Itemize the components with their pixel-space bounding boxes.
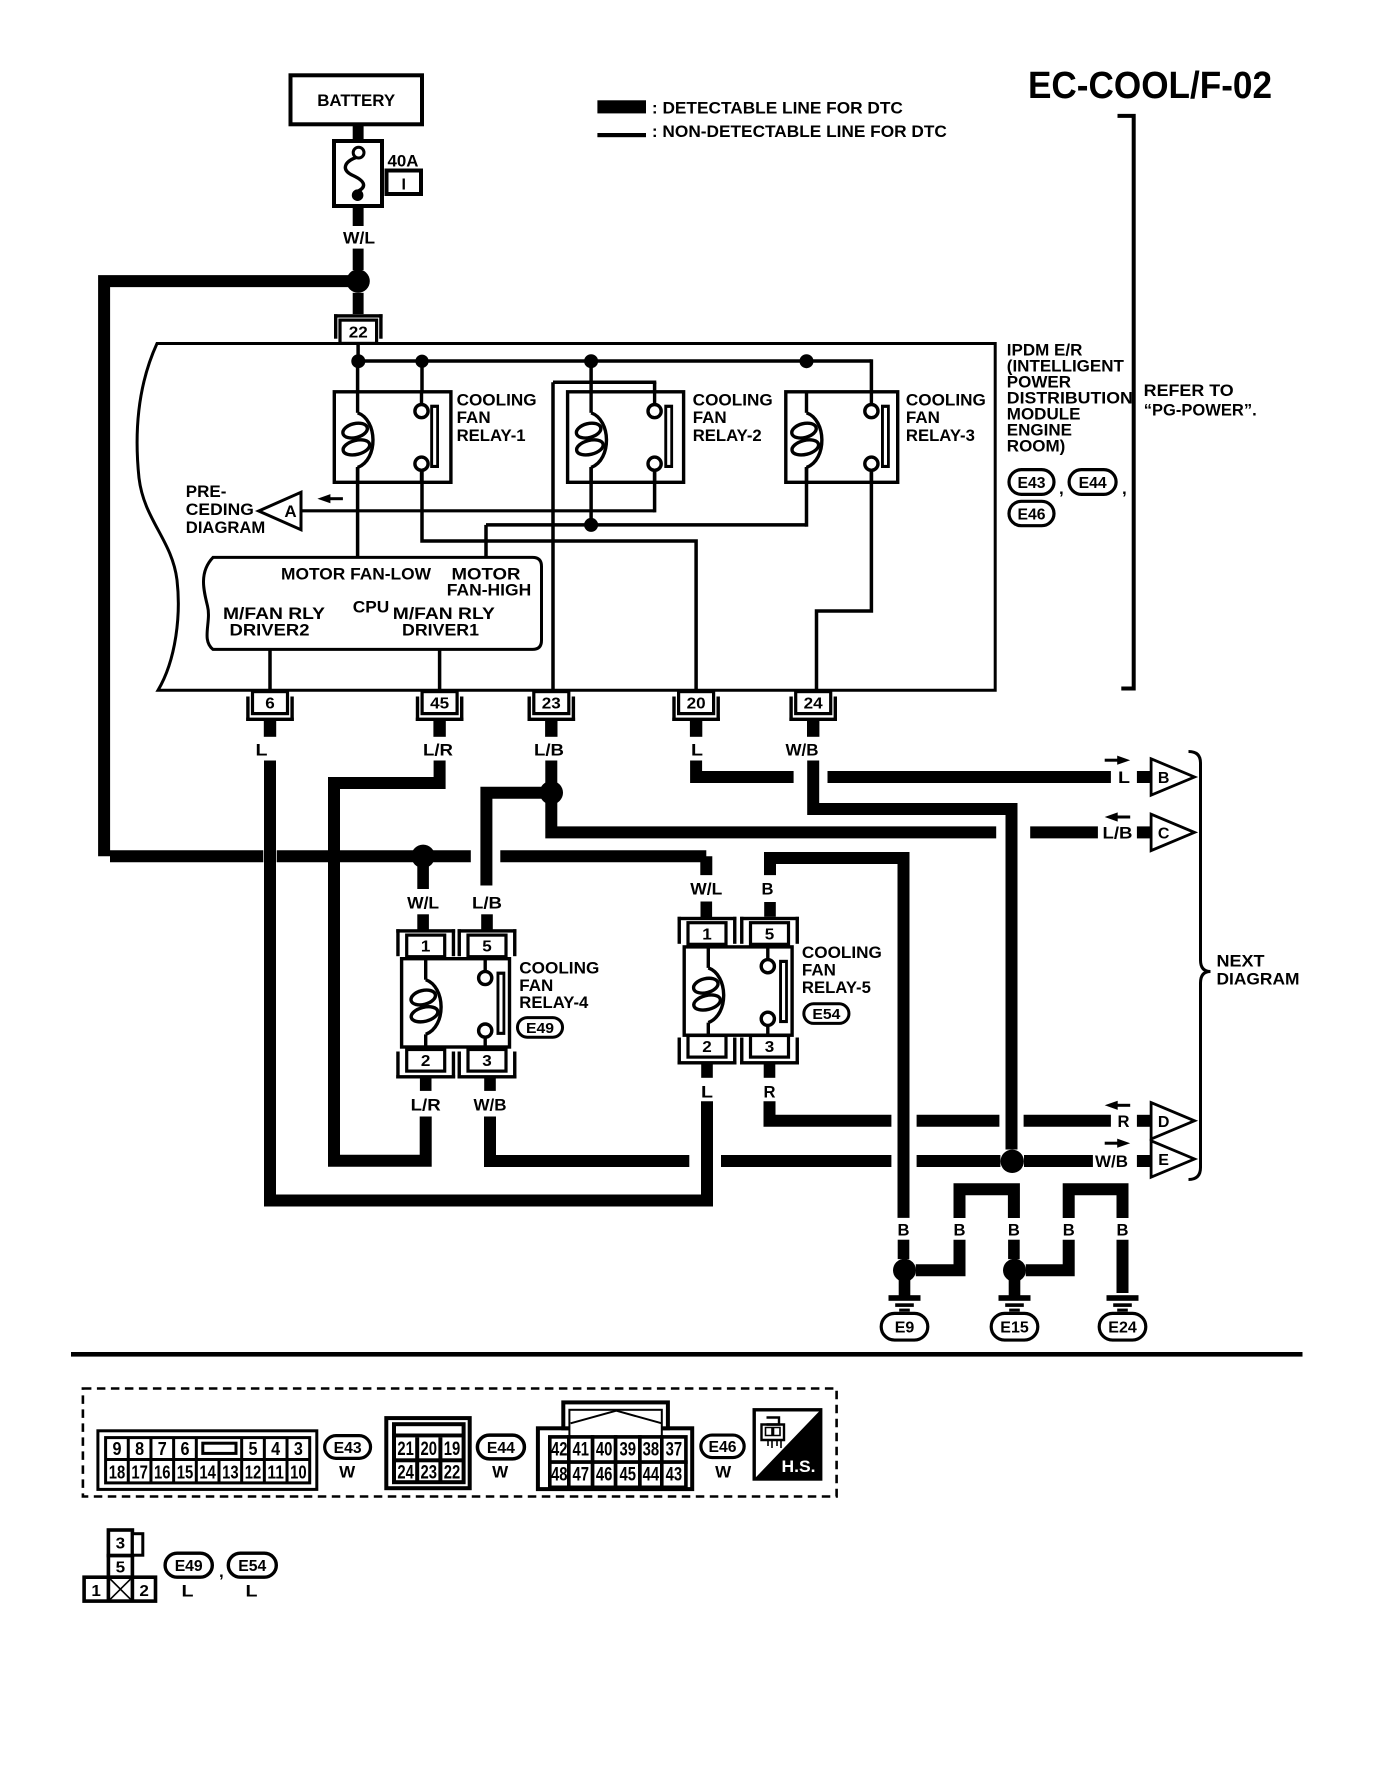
svg-text:“PG-POWER”.: “PG-POWER”. [1144, 401, 1257, 420]
svg-text:E44: E44 [1079, 475, 1107, 492]
wire stub terminal L x696.1 [690, 721, 702, 737]
connector E54 oval footer [228, 1553, 276, 1577]
wire node23 vertical to terminal 23 [551, 382, 555, 691]
wire relay-3 contact to terminal 24 [817, 470, 872, 691]
wire W/L relay-5 pin1 lower [701, 902, 713, 918]
connector detail E46 grid [538, 1428, 692, 1489]
svg-text:4: 4 [271, 1438, 281, 1459]
wire stub to ground E9 [899, 1279, 911, 1296]
relay K4 pin5 [458, 929, 517, 932]
svg-text:2: 2 [702, 1039, 712, 1056]
wire L/B relay-4 pin5 lower [481, 914, 493, 929]
svg-text:L: L [182, 1582, 194, 1601]
connector triangle B [1151, 759, 1194, 795]
wire R to D seg3 [1024, 1115, 1111, 1127]
svg-text:18: 18 [109, 1461, 126, 1482]
svg-text:L/R: L/R [423, 741, 453, 760]
svg-text:9: 9 [112, 1438, 121, 1459]
svg-text:41: 41 [572, 1440, 589, 1461]
wire FAN-HIGH horizontal [486, 523, 807, 527]
svg-text:D: D [1158, 1114, 1170, 1131]
fuse 40A [334, 141, 382, 206]
svg-text:46: 46 [596, 1465, 613, 1486]
wire square R D [1137, 1115, 1150, 1127]
wire B bridge pi-2 [1069, 1189, 1123, 1218]
terminal 24 IPDM [789, 718, 837, 721]
svg-text:BATTERY: BATTERY [317, 91, 396, 110]
svg-text:E9: E9 [895, 1319, 915, 1336]
wire W/L relay-4 pin1 lower [417, 914, 429, 929]
svg-text:E: E [1158, 1152, 1169, 1169]
next-diagram brace [1189, 752, 1211, 1180]
svg-text:L/B: L/B [1103, 823, 1133, 842]
junction bus relay-1 coil [351, 354, 365, 368]
svg-text:3: 3 [765, 1039, 775, 1056]
wire R to D seg2 [917, 1115, 1000, 1127]
svg-text:W/B: W/B [474, 1096, 507, 1115]
ground E9 [889, 1295, 921, 1301]
svg-text:42: 42 [551, 1440, 568, 1461]
svg-text:RELAY-3: RELAY-3 [906, 426, 975, 445]
junction L/B node [540, 781, 563, 804]
terminal 45 IPDM [416, 718, 464, 721]
connector detail E44 grid [386, 1418, 469, 1488]
connector detail dashed box [83, 1389, 837, 1497]
svg-text:L/R: L/R [411, 1096, 441, 1115]
svg-text:E46: E46 [1018, 506, 1046, 523]
svg-text:FAN: FAN [906, 408, 940, 427]
wire L relay-5 pin2 stub [701, 1063, 713, 1078]
wire stub terminal W/B x813.2 [807, 721, 819, 737]
svg-text:ROOM): ROOM) [1007, 436, 1066, 455]
svg-text:L: L [1118, 768, 1130, 787]
terminal 23 IPDM [528, 718, 576, 721]
junction bus relay-1 contact [415, 355, 428, 368]
svg-text:RELAY-2: RELAY-2 [693, 426, 762, 445]
svg-text:E49: E49 [526, 1020, 554, 1037]
svg-text:R: R [1118, 1112, 1130, 1131]
wire L/R relay-4 pin2 stub [420, 1076, 432, 1091]
wire CPU driver2 to terminal 6 [268, 649, 272, 691]
arrow at D incoming [1105, 1101, 1118, 1110]
svg-text:L: L [701, 1083, 713, 1102]
wire bus to relay-2 coil [589, 361, 593, 394]
svg-text:44: 44 [643, 1465, 660, 1486]
junction ground E9 [893, 1259, 916, 1282]
wire B ground3 lower [1008, 1240, 1020, 1259]
wire L/B branch to relay-4 pin5 [486, 793, 551, 886]
svg-text:H.S.: H.S. [782, 1457, 816, 1476]
svg-text:L: L [691, 741, 703, 760]
svg-text:21: 21 [397, 1439, 414, 1460]
junction ground E15 [1003, 1259, 1026, 1282]
svg-text:B: B [1158, 770, 1170, 787]
wire battery to fuse [353, 124, 364, 143]
wire L terminal6 to relay-5 pin2 [270, 761, 707, 1201]
wire L terminal20 to B seg1 [696, 761, 794, 778]
bus wire from connector 22 [356, 344, 360, 362]
relay K3 COOLING FAN RELAY-3 [786, 392, 898, 483]
H.S. emblem [754, 1410, 821, 1479]
relay pin layout E49/E54 [108, 1530, 132, 1556]
svg-text:COOLING: COOLING [519, 958, 599, 977]
svg-text:23: 23 [542, 695, 561, 712]
relay K5 pin3 [740, 1061, 799, 1064]
wire stub to ground E15 [1009, 1279, 1021, 1296]
junction FAN-HIGH node [584, 518, 598, 532]
svg-text:3: 3 [294, 1438, 303, 1459]
svg-text:CPU: CPU [353, 598, 390, 617]
svg-text:40: 40 [596, 1440, 613, 1461]
svg-text:B: B [898, 1221, 910, 1240]
connector E44 oval footer [477, 1435, 524, 1459]
connector triangle E [1151, 1141, 1194, 1177]
svg-text:43: 43 [666, 1465, 683, 1486]
wire stub terminal L/R x439.6 [433, 721, 445, 737]
svg-text:L/B: L/B [472, 894, 502, 913]
svg-text:5: 5 [482, 939, 492, 956]
svg-text:13: 13 [222, 1461, 239, 1482]
svg-text:C: C [1158, 825, 1170, 842]
svg-text:23: 23 [421, 1463, 438, 1484]
wire B bridge pi-1 [960, 1189, 1014, 1218]
svg-text:E46: E46 [709, 1439, 737, 1456]
svg-text:COOLING: COOLING [457, 391, 537, 410]
wire W/B relay-4 pin3 stub [484, 1076, 496, 1091]
svg-text:W: W [492, 1463, 509, 1482]
svg-text:CEDING: CEDING [186, 500, 254, 519]
svg-text:38: 38 [643, 1440, 660, 1461]
svg-text:1: 1 [91, 1583, 101, 1600]
svg-text:3: 3 [482, 1053, 492, 1070]
svg-text:I: I [401, 177, 405, 194]
svg-text:W/B: W/B [786, 741, 819, 760]
svg-text:1: 1 [702, 926, 712, 943]
wire FAN-HIGH down to CPU [484, 525, 488, 558]
svg-text:37: 37 [666, 1440, 683, 1461]
connector E43 oval [1009, 470, 1054, 495]
wire bus to relay-1 coil [356, 361, 360, 394]
svg-text:16: 16 [154, 1461, 171, 1482]
svg-text:,: , [1059, 479, 1064, 498]
relay K4 body [402, 959, 510, 1047]
terminal 20 IPDM [672, 718, 720, 721]
connector E46 oval footer [701, 1435, 744, 1458]
svg-text:FAN: FAN [519, 976, 553, 995]
svg-text:W/L: W/L [690, 880, 722, 899]
svg-text:8: 8 [135, 1438, 144, 1459]
svg-text:E54: E54 [238, 1558, 266, 1575]
wire W/L horizontal seg1 [110, 850, 263, 862]
relay K4 pin2 [396, 1075, 455, 1078]
CPU box [203, 557, 541, 649]
svg-text:RELAY-1: RELAY-1 [457, 426, 526, 445]
wire L/B to connector C seg2 [1030, 826, 1098, 838]
wire W/B to E seg4 [1024, 1155, 1093, 1167]
svg-text:45: 45 [620, 1465, 637, 1486]
svg-text:7: 7 [158, 1438, 167, 1459]
svg-text:E54: E54 [812, 1006, 841, 1023]
wire B ground5 to E24 [1117, 1240, 1129, 1293]
svg-text:E24: E24 [1108, 1319, 1137, 1336]
svg-text:W: W [339, 1463, 356, 1482]
svg-text:FAN: FAN [457, 408, 491, 427]
wire relay-1 coil to CPU MOTOR FAN-LOW [356, 467, 360, 558]
wire W/B terminal24 down and right [813, 761, 1011, 1150]
ground E15 [999, 1295, 1031, 1301]
svg-text:RELAY-4: RELAY-4 [519, 993, 589, 1012]
svg-text:L: L [246, 1582, 258, 1601]
wire square L B [1137, 771, 1150, 783]
wire stub terminal L x270 [264, 721, 276, 737]
svg-text:11: 11 [267, 1461, 284, 1482]
svg-text:NEXT: NEXT [1217, 952, 1266, 971]
svg-text:22: 22 [349, 325, 368, 342]
svg-text:12: 12 [245, 1461, 262, 1482]
wire node23 horizontal [553, 380, 656, 384]
svg-text:22: 22 [444, 1463, 461, 1484]
wire W/L horizontal seg2 [277, 850, 471, 862]
svg-text:E15: E15 [1000, 1319, 1029, 1336]
wire CPU driver1 to terminal 45 [438, 649, 442, 691]
wire W/L main feed left and down [104, 281, 358, 856]
legend detectable line swatch [597, 100, 646, 113]
terminal 6 IPDM [246, 718, 294, 721]
svg-text:19: 19 [444, 1439, 461, 1460]
connector triangle C [1151, 814, 1194, 850]
svg-text:B: B [1008, 1221, 1020, 1240]
svg-text:5: 5 [116, 1560, 126, 1577]
connector triangle A preceding diagram [259, 492, 301, 529]
connector E43 oval footer [325, 1436, 371, 1459]
wire L terminal20 to B seg2 [828, 771, 1111, 783]
arrow at E outgoing [1117, 1139, 1130, 1148]
wire L/B to connector C seg1 [551, 793, 996, 833]
svg-text:17: 17 [131, 1461, 148, 1482]
connector E44 oval [1069, 470, 1116, 495]
svg-text:E43: E43 [1018, 475, 1046, 492]
svg-text:B: B [1117, 1221, 1129, 1240]
svg-text:W/L: W/L [343, 229, 375, 248]
svg-text:B: B [954, 1221, 966, 1240]
wire square W/B E [1137, 1155, 1150, 1167]
svg-text:W: W [715, 1463, 732, 1482]
junction battery W/L [346, 269, 369, 292]
svg-text:MOTOR FAN-LOW: MOTOR FAN-LOW [281, 564, 432, 583]
svg-text:24: 24 [804, 695, 823, 712]
svg-text:: DETECTABLE LINE FOR DTC: : DETECTABLE LINE FOR DTC [652, 99, 903, 118]
svg-text:40A: 40A [388, 152, 419, 171]
svg-text:L/B: L/B [534, 741, 564, 760]
wire L/B terminal23 down [545, 761, 557, 793]
arrow at B outgoing [1117, 756, 1130, 765]
svg-text:24: 24 [397, 1463, 414, 1484]
svg-text:COOLING: COOLING [693, 391, 773, 410]
wire W/L junction to connector 22 [353, 293, 364, 314]
svg-text:10: 10 [290, 1461, 307, 1482]
wire bus elbow to relay-3 contact [870, 359, 874, 399]
svg-text:RELAY-5: RELAY-5 [802, 978, 871, 997]
svg-text:A: A [284, 502, 296, 521]
svg-text:E44: E44 [487, 1440, 515, 1457]
svg-text:REFER TO: REFER TO [1144, 381, 1234, 400]
svg-text:39: 39 [620, 1440, 637, 1461]
wire B relay-5 pin5 up right down [770, 858, 904, 1218]
svg-text:5: 5 [249, 1438, 258, 1459]
svg-text:3: 3 [116, 1536, 126, 1553]
wire relay-2 contact bottom to A line [653, 470, 657, 512]
svg-text:20: 20 [687, 695, 706, 712]
wire W/B to E seg3 [917, 1155, 1001, 1167]
svg-text:EC-COOL/F-02: EC-COOL/F-02 [1028, 65, 1272, 107]
junction bus relay-3 coil [800, 354, 814, 368]
wire W/L horizontal seg3 [500, 856, 706, 875]
wire B ground2 to E9 junction [916, 1240, 960, 1271]
ground E24 [1107, 1295, 1139, 1301]
svg-text:1: 1 [421, 939, 431, 956]
svg-text:FAN: FAN [693, 408, 727, 427]
svg-text:: NON-DETECTABLE LINE FOR DTC: : NON-DETECTABLE LINE FOR DTC [652, 122, 947, 141]
wire B ground4 to E15 junction [1026, 1240, 1069, 1271]
svg-text:14: 14 [199, 1461, 216, 1482]
battery [291, 75, 423, 124]
connector E49 oval footer [165, 1553, 212, 1577]
wire W/L fuse to junction upper [353, 206, 364, 226]
svg-text:20: 20 [421, 1439, 438, 1460]
svg-text:48: 48 [551, 1465, 568, 1486]
relay K4 COOLING FAN RELAY-4 pin1 [396, 929, 455, 932]
svg-text:B: B [1063, 1221, 1075, 1240]
svg-text:L: L [256, 741, 268, 760]
relay K5 pin5 [740, 917, 799, 920]
wire stub terminal L/B x551.3 [545, 721, 557, 737]
wire W/B relay-4 pin3 to E seg1 [490, 1117, 689, 1162]
svg-text:DRIVER2: DRIVER2 [230, 620, 310, 639]
wire R relay-5 pin3 stub [764, 1063, 776, 1078]
wire W/B to E seg2 [721, 1155, 891, 1167]
fuse slot I box [387, 171, 422, 195]
svg-text:COOLING: COOLING [906, 391, 986, 410]
wire L/R terminal45 to relay-4 pin2 [334, 761, 440, 1161]
svg-text:,: , [219, 1562, 224, 1581]
wire B ground1 lower [898, 1240, 910, 1259]
relay K5 pin2 [678, 1061, 737, 1064]
connector E46 oval [1009, 501, 1054, 525]
wire square L/B C [1137, 826, 1150, 838]
svg-text:R: R [764, 1083, 776, 1102]
svg-text:E43: E43 [334, 1440, 362, 1457]
wire W/L stub to relay-4 pin1 [417, 866, 429, 889]
legend non-detectable line swatch [597, 133, 646, 137]
wire bus to relay-1 contact [420, 361, 424, 399]
connector triangle D [1151, 1103, 1194, 1139]
relay K4 pin3 [458, 1075, 517, 1078]
svg-text:2: 2 [421, 1053, 431, 1070]
svg-text:DIAGRAM: DIAGRAM [186, 518, 265, 537]
junction W/B E node [1001, 1150, 1024, 1173]
svg-text:,: , [1122, 479, 1127, 498]
arrow preceding direction [317, 494, 330, 503]
junction W/L relay-4 feed [411, 845, 434, 868]
bus wire 12V rail [356, 359, 871, 363]
wire relay-2 coil to FAN-HIGH node [589, 467, 593, 525]
svg-text:5: 5 [765, 926, 775, 943]
IPDM E/R box [137, 344, 995, 691]
svg-text:E49: E49 [175, 1558, 203, 1575]
connector 22 to IPDM [334, 314, 383, 317]
svg-text:COOLING: COOLING [802, 943, 882, 962]
svg-text:FAN: FAN [802, 961, 836, 980]
relay K5 COOLING FAN RELAY-5 pin1 [678, 917, 737, 920]
svg-text:PRE-: PRE- [186, 482, 227, 501]
svg-text:45: 45 [430, 695, 449, 712]
svg-text:W/B: W/B [1095, 1152, 1128, 1171]
relay K2 COOLING FAN RELAY-2 [568, 392, 684, 483]
arrow at C incoming [1105, 812, 1118, 821]
wire relay-3 coil to FAN-HIGH [805, 467, 809, 527]
connector E49 oval at relay-4 [517, 1018, 562, 1038]
wire W/L fuse to junction lower [353, 249, 364, 271]
svg-text:47: 47 [572, 1465, 589, 1486]
wire B relay-5 pin5 stub [764, 902, 776, 917]
svg-text:FAN-HIGH: FAN-HIGH [447, 580, 531, 599]
junction bus relay-2 coil [584, 354, 598, 368]
wire relay-2 contact to node23 [653, 382, 657, 399]
relay K1 COOLING FAN RELAY-1 [334, 392, 451, 483]
svg-text:6: 6 [180, 1438, 189, 1459]
connector E54 oval at relay-5 [804, 1004, 849, 1024]
svg-text:6: 6 [265, 695, 275, 712]
separator line [71, 1352, 1303, 1357]
relay K5 body [684, 947, 792, 1035]
svg-text:15: 15 [177, 1461, 194, 1482]
connector detail E43 grid [98, 1431, 317, 1490]
svg-text:2: 2 [139, 1583, 149, 1600]
wire R to D seg1 [770, 1101, 892, 1121]
wire relay-1 contact to terminal 20 [422, 470, 696, 691]
svg-text:B: B [762, 880, 774, 899]
svg-text:DRIVER1: DRIVER1 [402, 620, 479, 639]
wire A to relay-2 contact [301, 509, 655, 512]
svg-text:DIAGRAM: DIAGRAM [1217, 970, 1300, 989]
refer-to bracket [1118, 116, 1134, 689]
svg-text:W/L: W/L [407, 894, 439, 913]
